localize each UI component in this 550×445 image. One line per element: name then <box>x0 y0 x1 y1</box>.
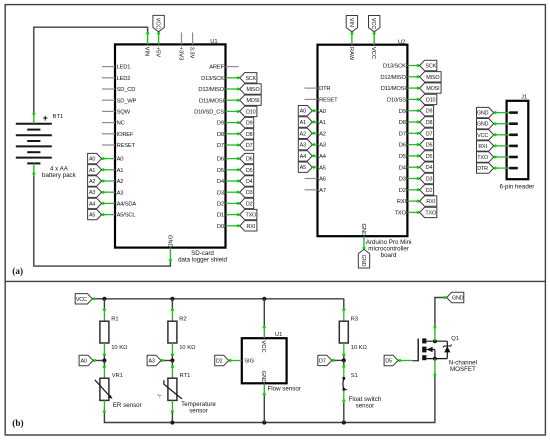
net tag D5 and pin D5 (U1 right) <box>226 169 240 171</box>
net tag D5 and pin D5 (U2 right) <box>407 155 419 157</box>
net tag SCK and pin D13/SCK (U1 right) <box>226 77 240 79</box>
svg-text:-t°: -t° <box>157 393 162 398</box>
svg-text:A0: A0 <box>117 157 124 163</box>
net tag VCC (panel b supply) <box>92 298 104 300</box>
svg-text:A7: A7 <box>319 188 326 194</box>
svg-text:D7: D7 <box>319 358 326 364</box>
svg-text:GND: GND <box>360 255 366 267</box>
wire bottom ground rail <box>104 376 435 422</box>
pin DTR (U2 left, unconnected) <box>305 87 318 89</box>
wire R1 to node A0 <box>103 343 105 356</box>
svg-text:A0: A0 <box>319 109 326 115</box>
net tag RXI and pin D0 (U1 right) <box>226 225 240 227</box>
svg-text:TXO: TXO <box>477 155 488 161</box>
svg-text:A5: A5 <box>300 165 306 171</box>
svg-text:battery pack: battery pack <box>42 172 77 179</box>
svg-text:AREF: AREF <box>209 65 224 71</box>
wire R3 to node D7 <box>343 343 345 356</box>
pin VIN (U1 top, connected) <box>147 32 149 45</box>
net tag A1 and pin A1 (U2 left) <box>312 121 317 123</box>
pin AREF (U1 right, unconnected) <box>226 66 239 68</box>
junction node A0/VR1 <box>102 358 106 362</box>
svg-text:S1: S1 <box>351 373 358 379</box>
net tag D8 and pin D8 (U2 right) <box>407 121 419 123</box>
svg-text:D8: D8 <box>426 120 433 126</box>
net tag D7 and pin D7 (U2 right) <box>407 132 419 134</box>
pin A6 (U2 left, unconnected) <box>305 178 318 180</box>
svg-text:sensor: sensor <box>189 408 208 415</box>
svg-text:J1: J1 <box>521 95 527 101</box>
svg-text:U1: U1 <box>275 332 282 338</box>
net tag D6 and pin D6 (U2 right) <box>407 144 419 146</box>
svg-text:D3: D3 <box>399 177 406 183</box>
svg-text:A1: A1 <box>319 120 326 126</box>
connector J1 6-pin header body <box>507 101 529 179</box>
pin +3V3 (U1 top, unconnected) <box>181 32 183 44</box>
svg-text:data logger shield: data logger shield <box>178 257 227 264</box>
wire VCC top rail <box>104 298 343 300</box>
switch S1 float switch sensor <box>343 360 345 365</box>
pin GND (U1 bottom) <box>169 248 171 262</box>
net tag MOSI and pin D11/MOSI (U1 right) <box>226 99 240 101</box>
pin GND (flow sensor bottom) <box>263 383 265 395</box>
svg-text:3.3V: 3.3V <box>189 47 195 59</box>
net tag D4 and pin D4 (U2 right) <box>407 166 419 168</box>
svg-text:U1: U1 <box>210 39 217 45</box>
svg-text:D5: D5 <box>426 154 433 160</box>
svg-text:D5: D5 <box>385 359 392 365</box>
ground tag GND (panel b) <box>443 296 446 299</box>
battery BT1 (4 x AA battery pack) <box>16 112 77 179</box>
IC U1 SD-card data logger shield body <box>115 44 226 247</box>
svg-text:D1: D1 <box>217 213 224 219</box>
svg-text:GND: GND <box>477 111 489 117</box>
svg-text:RXI: RXI <box>397 199 407 205</box>
svg-text:A2: A2 <box>319 131 326 137</box>
svg-text:D7: D7 <box>399 131 406 137</box>
svg-text:10 KΩ: 10 KΩ <box>179 345 196 351</box>
net tag GND and J1 pin 2 <box>494 123 510 125</box>
svg-text:SIG: SIG <box>244 359 254 365</box>
svg-text:SCK: SCK <box>425 64 436 70</box>
net tag A4 and pin A4/SDA (U1 left) <box>102 202 115 204</box>
svg-text:DTR: DTR <box>477 166 488 172</box>
pin VCC (flow sensor top) <box>263 326 265 339</box>
pin SD_WP (U1 left, unconnected) <box>102 99 115 101</box>
net tag D7 (panel b) <box>332 359 344 361</box>
net tag D2 and pin D2 (U1 right) <box>226 202 240 204</box>
svg-text:D4: D4 <box>399 165 407 171</box>
svg-text:A5: A5 <box>89 213 95 219</box>
svg-text:RT1: RT1 <box>180 373 191 379</box>
net tag D3 and pin D3 (U1 right) <box>226 191 240 193</box>
svg-text:D4: D4 <box>246 179 253 185</box>
svg-text:D10/SD_CS: D10/SD_CS <box>194 110 224 116</box>
svg-text:VIN: VIN <box>144 47 150 57</box>
svg-text:DTR: DTR <box>319 86 330 92</box>
svg-text:VCC: VCC <box>477 133 488 139</box>
IC U2 Arduino Pro Mini body <box>318 45 408 237</box>
net tag MOSI and pin D11/MOSI (U2 right) <box>407 87 419 89</box>
svg-text:D3: D3 <box>217 190 224 196</box>
svg-text:GND: GND <box>477 122 489 128</box>
svg-text:A4: A4 <box>300 154 306 160</box>
svg-text:D13/SCK: D13/SCK <box>383 64 406 70</box>
pin RESET (U1 left, unconnected) <box>102 144 115 146</box>
svg-text:D10/SS: D10/SS <box>387 98 406 104</box>
net tag A1 and pin A1 (U1 left) <box>102 169 115 171</box>
net tag TXO and pin TXO (U2 right) <box>407 211 419 213</box>
svg-text:D8: D8 <box>246 132 253 138</box>
svg-text:VCC: VCC <box>155 18 161 29</box>
net tag A0 and pin A0 (U1 left) <box>102 158 115 160</box>
net tag D10 and pin D10/SS (U2 right) <box>407 98 419 100</box>
svg-text:(a): (a) <box>12 266 23 276</box>
svg-text:MOSI: MOSI <box>246 98 259 104</box>
svg-text:D0: D0 <box>217 224 224 230</box>
svg-text:D4: D4 <box>426 165 433 171</box>
svg-text:GND: GND <box>166 235 172 248</box>
svg-text:D8: D8 <box>217 132 224 138</box>
variable resistor VR1 (ER sensor) <box>103 361 105 366</box>
svg-text:GND: GND <box>452 296 464 302</box>
svg-text:R2: R2 <box>179 316 186 322</box>
svg-text:D5: D5 <box>246 168 253 174</box>
svg-text:10 KΩ: 10 KΩ <box>111 345 128 351</box>
svg-text:D9: D9 <box>426 109 433 115</box>
net tag RXI and pin RXI (U2 right) <box>407 200 419 202</box>
svg-text:VCC: VCC <box>76 297 87 303</box>
svg-text:RESET: RESET <box>319 98 338 104</box>
net tag A0 (panel b) <box>93 360 104 362</box>
svg-text:MOSFET: MOSFET <box>450 366 476 373</box>
svg-text:SD_CD: SD_CD <box>117 87 136 93</box>
junction node D7/S1 <box>342 358 346 362</box>
svg-text:A0: A0 <box>80 359 86 365</box>
net tag D2 and pin D2 (U2 right) <box>407 189 419 191</box>
net tag DTR and J1 pin 6 <box>494 167 510 169</box>
svg-text:6-pin header: 6-pin header <box>500 183 535 190</box>
resistor R3 10 KΩ <box>343 309 345 322</box>
net tag D2 and pin SIG (flow sensor) <box>229 360 242 362</box>
pin 3.3V (U1 top, unconnected) <box>192 32 194 44</box>
svg-text:D11/MOSI: D11/MOSI <box>381 86 407 92</box>
svg-text:D5: D5 <box>217 168 224 174</box>
svg-text:A4/SDA: A4/SDA <box>117 202 137 208</box>
svg-text:VCC: VCC <box>260 340 266 352</box>
svg-text:D6: D6 <box>246 157 253 163</box>
svg-text:BT1: BT1 <box>53 114 64 120</box>
svg-text:VIN: VIN <box>348 18 354 27</box>
svg-text:MISO: MISO <box>246 87 259 93</box>
svg-text:A3: A3 <box>319 143 326 149</box>
pin IOREF (U1 left, unconnected) <box>102 133 115 135</box>
svg-text:RXI: RXI <box>426 199 435 205</box>
net tag TXO and pin D1 (U1 right) <box>226 214 240 216</box>
svg-text:VR1: VR1 <box>112 373 123 379</box>
pin LED1 (U1 left, unconnected) <box>102 66 115 68</box>
svg-text:D9: D9 <box>217 121 224 127</box>
svg-text:A4: A4 <box>319 154 327 160</box>
svg-text:NC: NC <box>117 121 125 127</box>
net tag A4 and pin A4 (U2 left) <box>312 155 317 157</box>
svg-text:+5V: +5V <box>155 47 161 58</box>
svg-text:RAW: RAW <box>348 47 354 61</box>
net tag D8 and pin D8 (U1 right) <box>226 133 240 135</box>
svg-text:D7: D7 <box>246 143 253 149</box>
svg-text:D4: D4 <box>217 179 225 185</box>
pin SQW (U1 left, unconnected) <box>102 110 115 112</box>
svg-text:D7: D7 <box>217 143 224 149</box>
svg-text:ER sensor: ER sensor <box>113 402 142 409</box>
svg-text:D9: D9 <box>246 121 253 127</box>
net tag VCC and pin VCC (U2 top) <box>373 32 375 45</box>
net tag RXI and J1 pin 4 <box>494 145 510 147</box>
svg-text:TXO: TXO <box>245 213 256 219</box>
net tag A2 and pin A2 (U2 left) <box>312 132 317 134</box>
net tag GND and J1 pin 1 <box>494 112 510 114</box>
wire flow sensor GND to ground rail <box>263 396 265 423</box>
pin LED2 (U1 left, unconnected) <box>102 77 115 79</box>
svg-text:A1: A1 <box>117 168 124 174</box>
svg-text:LED1: LED1 <box>117 65 131 71</box>
svg-text:A3: A3 <box>148 359 154 365</box>
svg-text:10 KΩ: 10 KΩ <box>351 345 368 351</box>
svg-text:D2: D2 <box>246 201 253 207</box>
svg-text:D6: D6 <box>426 143 433 149</box>
svg-text:LED2: LED2 <box>117 76 131 82</box>
net tag D10 and pin D10/SD_CS (U1 right) <box>226 110 240 112</box>
net tag D9 and pin D9 (U2 right) <box>407 110 419 112</box>
svg-text:SD_WP: SD_WP <box>117 98 137 104</box>
svg-text:VCC: VCC <box>370 47 376 59</box>
power tag VCC above U1 <box>158 32 160 45</box>
svg-text:A2: A2 <box>89 179 95 185</box>
svg-text:board: board <box>381 252 397 259</box>
svg-text:D3: D3 <box>426 177 433 183</box>
net tag MISO and pin D12/MISO (U2 right) <box>407 76 419 78</box>
transistor Q1 N-channel MOSFET <box>413 360 419 362</box>
net tag VIN and pin RAW (U2 top) <box>351 32 353 45</box>
svg-text:A0: A0 <box>300 109 306 115</box>
svg-text:A3: A3 <box>117 190 124 196</box>
svg-text:A2: A2 <box>117 179 124 185</box>
svg-text:D5: D5 <box>399 154 406 160</box>
net tag A3 and pin A3 (U1 left) <box>102 191 115 193</box>
svg-text:D10: D10 <box>426 97 436 103</box>
svg-text:sensor: sensor <box>356 402 375 409</box>
svg-text:RXI: RXI <box>247 224 256 230</box>
svg-text:TXO: TXO <box>425 210 436 216</box>
thermistor RT1 (temperature sensor) <box>171 361 173 366</box>
wire battery positive to VIN <box>34 27 148 112</box>
svg-text:A3: A3 <box>89 190 95 196</box>
svg-text:VCC: VCC <box>370 18 376 29</box>
svg-text:D6: D6 <box>217 157 224 163</box>
net tag A3 and pin A3 (U2 left) <box>312 144 317 146</box>
svg-text:MOSI: MOSI <box>426 86 439 92</box>
svg-text:+3V3: +3V3 <box>177 47 183 61</box>
net tag TXO and J1 pin 5 <box>494 156 510 158</box>
svg-text:A3: A3 <box>300 143 306 149</box>
pin GND (U2 bottom) and ground tag GND <box>363 236 365 249</box>
svg-text:A6: A6 <box>319 177 326 183</box>
flow sensor U1 (panel b) body <box>242 338 287 383</box>
resistor R1 10 KΩ <box>103 299 105 309</box>
wire rail to flow sensor VCC <box>263 299 265 326</box>
pin RESET (U2 left, unconnected) <box>305 98 318 100</box>
svg-text:D2: D2 <box>216 359 223 365</box>
svg-text:D9: D9 <box>399 109 406 115</box>
svg-text:U2: U2 <box>398 39 405 45</box>
junction node A3/RT1 <box>170 358 174 362</box>
wire drain to GND tag <box>435 298 447 326</box>
svg-text:D2: D2 <box>426 188 433 194</box>
net tag VCC and J1 pin 3 <box>494 134 510 136</box>
svg-text:A4: A4 <box>89 201 95 207</box>
svg-text:Flow sensor: Flow sensor <box>268 386 301 393</box>
net tag A5 and pin A5 (U2 left) <box>312 166 317 168</box>
svg-text:RXI: RXI <box>478 144 487 150</box>
svg-text:GND: GND <box>360 224 366 237</box>
svg-text:D11/MOSI: D11/MOSI <box>199 98 225 104</box>
net tag D7 and pin D7 (U1 right) <box>226 144 240 146</box>
svg-text:TXO: TXO <box>394 211 406 217</box>
svg-text:D2: D2 <box>217 202 224 208</box>
svg-text:(b): (b) <box>12 418 23 428</box>
net tag D5 (gate) <box>398 360 412 362</box>
pin NC (U1 left, unconnected) <box>102 122 115 124</box>
net tag D6 and pin D6 (U1 right) <box>226 158 240 160</box>
svg-text:D13/SCK: D13/SCK <box>201 76 224 82</box>
svg-text:D12/MISO: D12/MISO <box>198 87 224 93</box>
svg-text:R3: R3 <box>351 316 358 322</box>
svg-text:IOREF: IOREF <box>117 132 134 138</box>
svg-text:A2: A2 <box>300 131 306 137</box>
svg-text:A0: A0 <box>89 157 95 163</box>
resistor R2 10 KΩ <box>171 299 173 309</box>
net tag MISO and pin D12/MISO (U1 right) <box>226 88 240 90</box>
net tag A0 and pin A0 (U2 left) <box>312 110 317 112</box>
svg-text:R1: R1 <box>111 316 118 322</box>
svg-text:RESET: RESET <box>117 143 136 149</box>
svg-text:GND: GND <box>260 371 266 384</box>
svg-text:SQW: SQW <box>117 110 131 116</box>
junction dots on rails <box>102 297 106 301</box>
net tag D4 and pin D4 (U1 right) <box>226 180 240 182</box>
svg-text:D6: D6 <box>399 143 406 149</box>
net tag A2 and pin A2 (U1 left) <box>102 180 115 182</box>
wire battery negative to U1 GND <box>34 175 171 266</box>
svg-text:A5/SCL: A5/SCL <box>117 213 137 219</box>
net tag D3 and pin D3 (U2 right) <box>407 178 419 180</box>
net tag A5 and pin A5/SCL (U1 left) <box>102 214 115 216</box>
svg-text:+: + <box>43 113 48 123</box>
svg-text:A1: A1 <box>89 168 95 174</box>
net tag SCK and pin D13/SCK (U2 right) <box>407 65 419 67</box>
wire R3 drop from rail <box>343 299 345 309</box>
svg-text:A1: A1 <box>300 120 306 126</box>
net tag D9 and pin D9 (U1 right) <box>226 122 240 124</box>
wire R2 to node A3 <box>171 343 173 356</box>
svg-text:A5: A5 <box>319 165 326 171</box>
svg-text:D12/MISO: D12/MISO <box>380 75 406 81</box>
svg-text:D7: D7 <box>426 131 433 137</box>
svg-text:MISO: MISO <box>426 75 439 81</box>
svg-text:D8: D8 <box>399 120 406 126</box>
pin SD_CD (U1 left, unconnected) <box>102 88 115 90</box>
svg-text:D2: D2 <box>399 188 406 194</box>
svg-text:Q1: Q1 <box>451 336 459 342</box>
net tag A3 (panel b) <box>161 360 172 362</box>
svg-text:SCK: SCK <box>245 76 256 82</box>
svg-text:D10: D10 <box>246 109 256 115</box>
svg-text:D3: D3 <box>246 190 253 196</box>
pin A7 (U2 left, unconnected) <box>305 189 318 191</box>
